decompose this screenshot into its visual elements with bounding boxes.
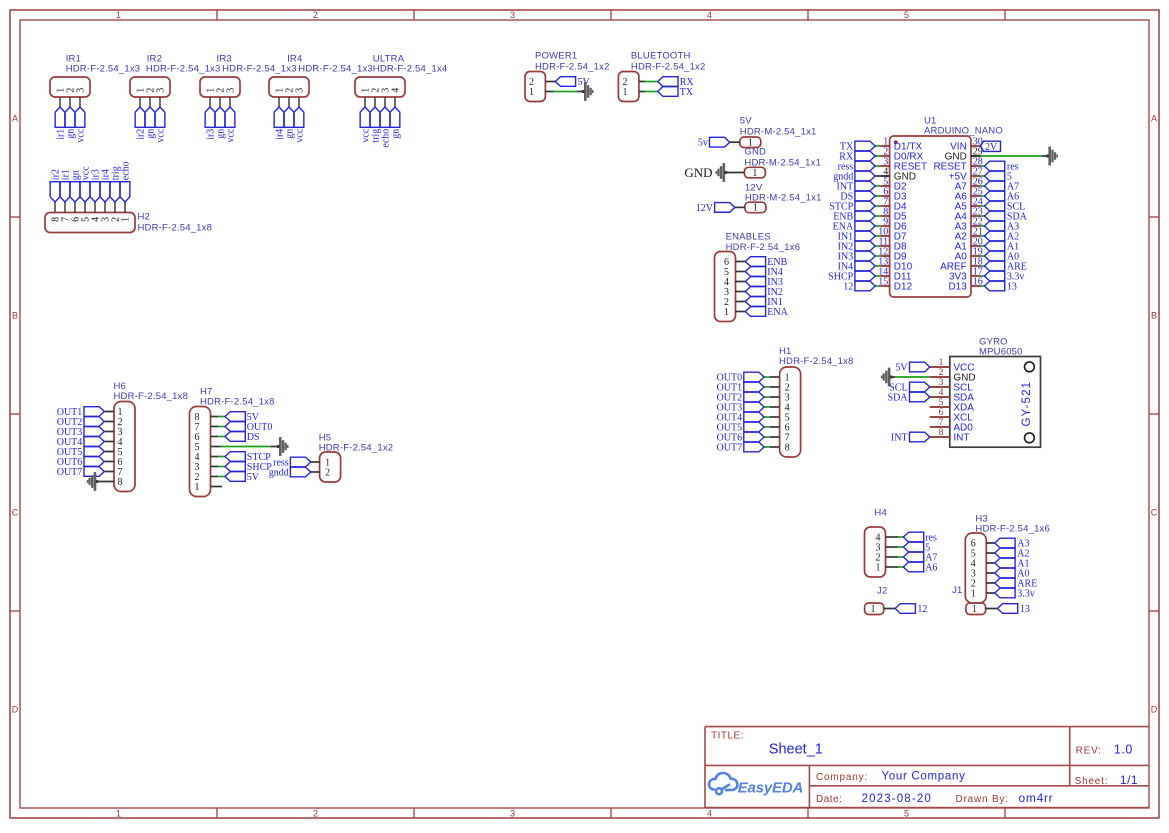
svg-text:1: 1 xyxy=(753,203,758,214)
svg-text:J2: J2 xyxy=(877,586,887,597)
pin 7 (D4) of U1 xyxy=(880,196,907,212)
wire 5v flag to pin xyxy=(730,141,740,143)
net flag ir4 xyxy=(274,107,285,140)
wire U1 pin 21 xyxy=(981,235,985,237)
net flag RX xyxy=(658,77,695,88)
wire U1 pin 27 xyxy=(981,175,985,177)
net flag echo xyxy=(120,161,131,202)
wire H1 pin 5 xyxy=(770,416,780,418)
svg-text:D: D xyxy=(12,705,19,715)
pin 11 (D8) of U1 xyxy=(879,236,907,252)
pin 4 (SDA) of GYRO xyxy=(930,388,974,404)
net flag SCL xyxy=(984,201,1025,212)
net flag A3 xyxy=(995,538,1030,549)
net port 12V at U1 pin 30 xyxy=(981,141,1001,153)
svg-text:1: 1 xyxy=(724,307,729,318)
net flag OUT6 xyxy=(717,432,765,443)
svg-text:C: C xyxy=(1151,508,1158,518)
ground (HDR-M GND) xyxy=(716,163,728,182)
wire H3 pin 2 xyxy=(986,582,995,584)
pin 6 (D3) of U1 xyxy=(880,186,907,202)
wire pin 5 of H2 xyxy=(84,202,86,213)
wire BLUETOOTH to RX xyxy=(639,81,645,83)
svg-text:2: 2 xyxy=(325,467,330,478)
wire pin 2 of IR2 xyxy=(149,97,151,107)
net flag OUT5 xyxy=(717,422,765,433)
svg-text:HDR-F-2.54_1x3: HDR-F-2.54_1x3 xyxy=(222,64,297,75)
net flag echo xyxy=(380,107,391,148)
wire H7 pin 8 xyxy=(211,416,219,418)
net flag SDA xyxy=(984,211,1027,222)
svg-text:HDR-F-2.54_1x3: HDR-F-2.54_1x3 xyxy=(298,64,373,75)
wire U1 pin 19 xyxy=(981,255,985,257)
net flag ir2 xyxy=(50,169,61,202)
net flag 5V (GYRO) xyxy=(895,362,929,373)
wire BLUETOOTH to TX xyxy=(639,91,645,93)
net flag A7 xyxy=(903,552,937,563)
pin 5 (D2) of U1 xyxy=(880,176,907,192)
GYRO MPU6050 body xyxy=(950,337,1041,448)
net flag ENA xyxy=(833,221,876,232)
wire U1 pin 6 xyxy=(875,195,880,197)
net flag 5V xyxy=(225,472,260,483)
svg-text:1: 1 xyxy=(939,358,944,368)
wire pin 4 of ULTRA xyxy=(394,97,396,107)
svg-text:GND: GND xyxy=(744,146,766,157)
wire U1 pin 10 xyxy=(875,235,880,237)
net flag res xyxy=(984,161,1018,172)
svg-text:J1: J1 xyxy=(952,585,962,596)
wire pin 1 of H2 xyxy=(124,202,126,213)
wire H6 pin 3 xyxy=(104,431,114,433)
svg-text:HDR-F-2.54_1x8: HDR-F-2.54_1x8 xyxy=(200,396,275,407)
pin 1 (VCC) of GYRO xyxy=(930,358,975,374)
wire ENABLES pin 3 xyxy=(736,291,746,293)
net flag SHCP xyxy=(225,462,272,473)
pin 28 (RESET) of U1 xyxy=(933,156,982,172)
net flag OUT7 xyxy=(717,442,765,453)
svg-text:HDR-F-2.54_1x2: HDR-F-2.54_1x2 xyxy=(631,62,706,73)
pin 15 (D12) of U1 xyxy=(878,276,912,292)
net flag SCL (GYRO) xyxy=(889,382,930,393)
svg-text:2: 2 xyxy=(313,809,318,819)
net flag TX xyxy=(840,141,875,152)
net flag 13 xyxy=(984,281,1017,292)
connector BLUETOOTH xyxy=(618,51,705,102)
wire H1 pin 3 xyxy=(770,396,780,398)
net flag ir2 xyxy=(135,107,146,140)
pin 9 (D6) of U1 xyxy=(880,216,907,232)
connector J2 xyxy=(865,586,888,616)
svg-text:Company:: Company: xyxy=(816,772,868,783)
svg-text:D: D xyxy=(1151,705,1158,715)
connector POWER1 xyxy=(525,51,610,102)
svg-text:1: 1 xyxy=(116,809,121,819)
svg-text:HDR-F-2.54_1x8: HDR-F-2.54_1x8 xyxy=(138,223,213,234)
net flag gn xyxy=(70,170,81,202)
wire pin 2 of IR3 xyxy=(219,97,221,107)
wire pin 2 POWER1 to 5V xyxy=(545,81,555,83)
connector IR2 xyxy=(130,54,221,98)
net flag IN3 xyxy=(838,251,876,262)
net flag 12 xyxy=(843,281,875,292)
svg-text:4: 4 xyxy=(390,88,401,93)
svg-text:D12: D12 xyxy=(894,282,913,293)
svg-text:4: 4 xyxy=(707,10,712,20)
svg-text:vcc: vcc xyxy=(75,128,86,142)
svg-text:1: 1 xyxy=(876,562,881,573)
wire H1 pin 6 xyxy=(770,426,780,428)
svg-text:A: A xyxy=(12,114,18,124)
op-amp U1 ARDUINO_NANO body xyxy=(890,116,1003,298)
net flag OUT2 xyxy=(717,392,765,403)
svg-text:ENABLES: ENABLES xyxy=(726,232,771,243)
pin 10 (D7) of U1 xyxy=(878,226,907,242)
net flag OUT0 xyxy=(225,422,272,433)
wire J1 pin 1 xyxy=(986,608,998,610)
net flag A6 xyxy=(903,562,937,573)
net flag ress xyxy=(838,161,876,172)
wire H6 pin 7 xyxy=(104,471,114,473)
wire pin 1 of IR3 xyxy=(209,97,211,107)
title block xyxy=(705,727,1149,808)
net flag 5V xyxy=(555,77,590,88)
pin 7 (AD0) of GYRO xyxy=(930,418,973,434)
svg-text:3.3v: 3.3v xyxy=(1017,588,1035,599)
net flag trig xyxy=(110,166,121,202)
wire U1 pin 26 xyxy=(981,185,985,187)
pin 21 (A2) of U1 xyxy=(955,226,983,242)
net flag IN2 xyxy=(745,287,783,298)
wire H1 pin 1 xyxy=(770,376,780,378)
EasyEDA logo xyxy=(709,773,803,797)
net flag ENA xyxy=(745,307,788,318)
wire pin 2 of IR1 xyxy=(69,97,71,107)
wire U1 pin 2 xyxy=(875,155,880,157)
wire pin 2 of ULTRA xyxy=(374,97,376,107)
svg-text:C: C xyxy=(12,508,19,518)
svg-text:5: 5 xyxy=(939,398,944,408)
svg-text:B: B xyxy=(1151,311,1157,321)
svg-text:1: 1 xyxy=(971,588,976,599)
wire H7 pin 2 xyxy=(211,476,219,478)
svg-text:B: B xyxy=(12,311,18,321)
net flag vcc xyxy=(75,107,86,143)
wire H1 pin 8 xyxy=(770,446,780,448)
net flag STCP xyxy=(225,452,271,463)
svg-text:HDR-F-2.54_1x8: HDR-F-2.54_1x8 xyxy=(779,356,854,367)
net flag STCP xyxy=(829,201,875,212)
wire H1 pin 2 xyxy=(770,386,780,388)
wire H4 pin 1 xyxy=(886,566,899,568)
svg-text:3: 3 xyxy=(510,809,515,819)
wire H6 pin 8 to ground xyxy=(96,481,114,483)
wire ENABLES pin 4 xyxy=(736,281,746,283)
wire ENABLES pin 1 xyxy=(736,311,746,313)
svg-text:7: 7 xyxy=(939,418,944,428)
wire H5 xyxy=(311,461,320,463)
connector IR1 xyxy=(50,54,140,98)
wire H6 pin 2 xyxy=(104,421,114,423)
wire U1 pin 29 to ground xyxy=(981,155,1042,157)
wire H7 pin 4 xyxy=(211,456,219,458)
net flag gndd xyxy=(269,467,311,478)
wire pin 8 of H2 xyxy=(54,202,56,213)
wire H6 pin 1 xyxy=(104,411,114,413)
net flag ress xyxy=(273,457,311,468)
svg-text:HDR-M-2.54_1x1: HDR-M-2.54_1x1 xyxy=(740,126,817,137)
svg-text:1.0: 1.0 xyxy=(1114,743,1133,757)
wire pin 6 of H2 xyxy=(74,202,76,213)
svg-text:Sheet_1: Sheet_1 xyxy=(769,742,823,758)
wire ENABLES pin 5 xyxy=(736,271,746,273)
wire H1 pin 7 xyxy=(770,436,780,438)
svg-text:GND: GND xyxy=(684,165,712,180)
pin 8 (INT) of GYRO xyxy=(930,428,970,444)
pin 29 (GND) of U1 xyxy=(945,146,983,162)
svg-text:3: 3 xyxy=(510,10,515,20)
net flag ir3 xyxy=(90,169,101,202)
ground (H6 pin 8) xyxy=(87,472,99,491)
ground (U1 pin 29) xyxy=(1046,147,1058,166)
net flag vcc xyxy=(294,107,305,143)
connector H5 xyxy=(319,433,394,483)
svg-text:INT: INT xyxy=(891,432,908,443)
svg-text:1: 1 xyxy=(972,604,977,615)
svg-text:echo: echo xyxy=(120,161,131,180)
net flag DS xyxy=(225,432,260,443)
net flag A2 xyxy=(984,231,1019,242)
svg-text:1: 1 xyxy=(752,168,757,179)
wire pin 3 of IR1 xyxy=(79,97,81,107)
svg-text:A6: A6 xyxy=(925,562,937,573)
pin 14 (D11) of U1 xyxy=(878,266,912,282)
net flag gn xyxy=(215,107,226,139)
svg-text:TITLE:: TITLE: xyxy=(711,731,744,742)
wire U1 pin 1 xyxy=(875,145,880,147)
wire H3 pin 4 xyxy=(986,562,995,564)
wire U1 pin 11 xyxy=(875,245,880,247)
svg-text:H4: H4 xyxy=(874,508,887,519)
ground (POWER1 pin1) xyxy=(582,82,594,101)
svg-text:OUT7: OUT7 xyxy=(717,442,743,453)
svg-text:3: 3 xyxy=(294,88,305,93)
pin 22 (A3) of U1 xyxy=(955,216,983,232)
net flag vcc xyxy=(360,107,371,143)
pin 20 (A1) of U1 xyxy=(955,236,983,252)
wire U1 pin 28 xyxy=(981,165,985,167)
wire H6 pin 4 xyxy=(104,441,114,443)
net flag ir4 xyxy=(100,169,111,202)
net flag IN1 xyxy=(838,231,876,242)
wire pin 2 of H2 xyxy=(114,202,116,213)
net flag IN4 xyxy=(838,261,876,272)
ground (H7 pin 5) xyxy=(277,437,289,456)
svg-text:D13: D13 xyxy=(948,282,967,293)
pin 8 (D5) of U1 xyxy=(880,206,907,222)
pin 12 (D9) of U1 xyxy=(878,246,907,262)
wire U1 pin 17 xyxy=(981,275,985,277)
svg-text:TX: TX xyxy=(680,87,694,98)
net flag OUT5 xyxy=(57,447,105,458)
wire H4 pin 2 xyxy=(886,556,899,558)
svg-text:2: 2 xyxy=(313,10,318,20)
svg-text:4: 4 xyxy=(707,809,712,819)
pin 17 (3V3) of U1 xyxy=(949,266,983,282)
wire H7 pin 5 to ground xyxy=(211,446,221,448)
svg-text:1: 1 xyxy=(195,482,200,493)
net flag 3.3v xyxy=(995,588,1035,599)
pin 25 (A6) of U1 xyxy=(955,186,983,202)
net flag gn xyxy=(145,107,156,139)
net flag A0 xyxy=(984,251,1019,262)
svg-text:12: 12 xyxy=(917,604,927,615)
net flag OUT3 xyxy=(717,402,765,413)
wire GND symbol to pin xyxy=(725,172,744,174)
wire U1 pin 15 xyxy=(875,285,880,287)
svg-text:13: 13 xyxy=(1007,281,1017,292)
net flag ARE xyxy=(995,578,1038,589)
net flag ENB xyxy=(745,257,787,268)
svg-text:2023-08-20: 2023-08-20 xyxy=(862,793,932,805)
svg-text:8: 8 xyxy=(785,442,790,453)
svg-text:1: 1 xyxy=(871,604,876,615)
wire U1 pin 16 xyxy=(981,285,985,287)
wire pin 1 of ULTRA xyxy=(364,97,366,107)
svg-text:8: 8 xyxy=(118,477,123,488)
net flag 5 xyxy=(984,171,1012,182)
wire pin 3 of IR3 xyxy=(229,97,231,107)
svg-text:DS: DS xyxy=(247,432,260,443)
wire H7 pin 7 xyxy=(211,426,219,428)
svg-text:3: 3 xyxy=(225,88,236,93)
svg-text:1: 1 xyxy=(116,10,121,20)
connector 12V (HDR-M) xyxy=(745,182,822,213)
svg-text:HDR-F-2.54_1x4: HDR-F-2.54_1x4 xyxy=(373,64,448,75)
net flag 12V xyxy=(696,203,735,214)
pin 2 (D0/RX) of U1 xyxy=(880,146,923,162)
svg-text:3: 3 xyxy=(75,88,86,93)
svg-text:5V: 5V xyxy=(247,472,260,483)
pin 3 (RESET) of U1 xyxy=(880,156,927,172)
svg-text:3: 3 xyxy=(155,88,166,93)
net flag OUT6 xyxy=(57,457,105,468)
wire GYRO pin2 to ground xyxy=(895,376,930,378)
wire H3 pin 6 xyxy=(986,542,995,544)
net flag OUT1 xyxy=(717,382,765,393)
svg-text:1: 1 xyxy=(623,87,628,98)
wire U1 pin 9 xyxy=(875,225,880,227)
pin 13 (D10) of U1 xyxy=(878,256,912,272)
net flag INT (GYRO) xyxy=(891,432,930,443)
wire H5 xyxy=(311,471,320,473)
net flag gn xyxy=(284,107,295,139)
wire pin 3 of IR2 xyxy=(159,97,161,107)
svg-text:BLUETOOTH: BLUETOOTH xyxy=(631,51,691,62)
net flag A7 xyxy=(984,181,1019,192)
wire 12V flag to pin xyxy=(735,206,745,208)
svg-text:HDR-F-2.54_1x2: HDR-F-2.54_1x2 xyxy=(535,62,610,73)
wire H3 pin 1 xyxy=(986,592,995,594)
connector H6 xyxy=(114,381,189,492)
svg-text:H2: H2 xyxy=(138,212,151,223)
wire U1 pin 4 xyxy=(875,175,880,177)
connector IR3 xyxy=(200,54,297,98)
pin 3 (SCL) of GYRO xyxy=(930,378,973,394)
svg-text:OUT7: OUT7 xyxy=(57,467,83,478)
svg-text:om4rr: om4rr xyxy=(1019,791,1054,805)
wire U1 pin 5 xyxy=(875,185,880,187)
net flag OUT4 xyxy=(717,412,765,423)
svg-text:5V: 5V xyxy=(895,362,908,373)
net flag vcc xyxy=(80,166,91,202)
connector 5V (HDR-M) xyxy=(740,115,817,148)
svg-text:1: 1 xyxy=(529,87,534,98)
svg-text:2V: 2V xyxy=(985,142,998,153)
svg-text:HDR-F-2.54_1x6: HDR-F-2.54_1x6 xyxy=(726,242,801,253)
wire pin 1 of IR1 xyxy=(59,97,61,107)
connector H1 xyxy=(779,346,854,457)
pin 24 (A5) of U1 xyxy=(955,196,983,212)
svg-text:1: 1 xyxy=(120,217,131,222)
wire pin 1 POWER1 to GND xyxy=(545,91,553,93)
net flag A1 xyxy=(995,558,1030,569)
connector H3 xyxy=(965,514,1050,604)
wire H3 pin 5 xyxy=(986,552,995,554)
net flag A0 xyxy=(995,568,1030,579)
net flag 3.3v xyxy=(984,271,1024,282)
net flag OUT1 xyxy=(57,407,105,418)
svg-text:POWER1: POWER1 xyxy=(535,51,577,62)
connector ENABLES xyxy=(715,232,801,322)
svg-text:12V: 12V xyxy=(696,203,714,214)
svg-text:ENA: ENA xyxy=(767,307,788,318)
pin 18 (AREF) of U1 xyxy=(940,256,983,272)
svg-text:HDR-F-2.54_1x6: HDR-F-2.54_1x6 xyxy=(975,524,1050,535)
wire U1 pin 22 xyxy=(981,225,985,227)
net flag SHCP xyxy=(828,271,875,282)
ground (GYRO pin 2) xyxy=(881,368,893,387)
pin 5 (XDA) of GYRO xyxy=(930,398,974,414)
net flag A1 xyxy=(984,241,1019,252)
net flag A2 xyxy=(995,548,1030,559)
net flag gn xyxy=(65,107,76,139)
wire H6 pin 6 xyxy=(104,461,114,463)
connector H2 xyxy=(45,212,212,234)
wire U1 pin 7 xyxy=(875,205,880,207)
wire ENABLES pin 6 xyxy=(736,261,746,263)
connector J1 xyxy=(952,585,986,615)
net flag OUT3 xyxy=(57,427,105,438)
svg-text:2: 2 xyxy=(939,368,944,378)
wire H7 pin 3 xyxy=(211,466,219,468)
wire U1 pin 20 xyxy=(981,245,985,247)
net flag OUT7 xyxy=(57,467,105,478)
wire pin 1 of IR2 xyxy=(139,97,141,107)
connector H4 xyxy=(865,508,887,577)
net flag gn xyxy=(390,107,401,139)
net flag 5 xyxy=(903,542,930,553)
svg-text:EasyEDA: EasyEDA xyxy=(738,780,803,797)
net flag vcc xyxy=(155,107,166,143)
wire H4 pin 4 xyxy=(886,536,899,538)
pin 2 (GND) of GYRO xyxy=(930,368,976,384)
svg-text:Drawn By:: Drawn By: xyxy=(956,794,1009,805)
svg-text:vcc: vcc xyxy=(155,128,166,142)
net flag ir1 xyxy=(55,107,66,140)
wire U1 pin 14 xyxy=(875,275,880,277)
svg-text:3: 3 xyxy=(939,378,944,388)
